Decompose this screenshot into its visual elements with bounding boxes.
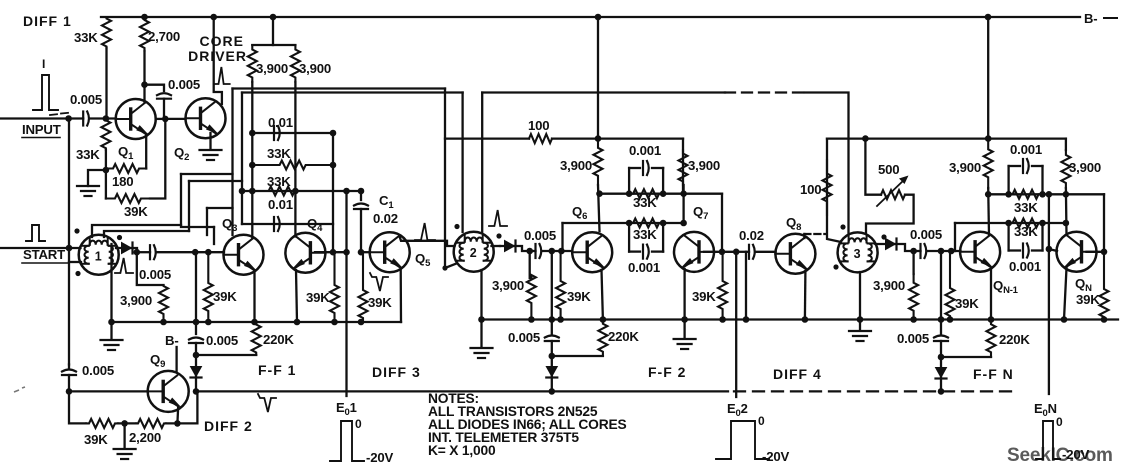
waveform E0N output (1036, 421, 1060, 459)
svg-text:I: I (42, 57, 45, 71)
wire row C (242, 190, 361, 192)
junction F-FN diode column top (938, 248, 945, 255)
wire Q4 collector column (294, 82, 296, 237)
junction input node / left column (65, 115, 72, 122)
junction rail/39K QN (1101, 316, 1108, 323)
wire INPUT lead (0, 117, 69, 119)
svg-text:0.005: 0.005 (524, 228, 556, 243)
junction Q6 base / row2 (558, 248, 565, 255)
junction row1 right crossing (680, 190, 687, 197)
wire left column (68, 119, 70, 365)
wire row2 corner to Q6 base (561, 223, 563, 251)
svg-text:1: 1 (95, 249, 102, 263)
capacitor 0.005 Q1-Q2 coupling (157, 93, 171, 95)
wire 220K F-FN return (941, 356, 991, 358)
wire Q5 base lead (361, 251, 370, 253)
junction top rail / Q2 collector (210, 14, 217, 21)
wire core3 to diode node (875, 244, 913, 251)
wire core1 right-lower to rail (110, 244, 112, 322)
junction rail/Q3 emitter (251, 319, 258, 326)
core T2 (454, 232, 494, 272)
wire staircase segment A (181, 174, 214, 227)
svg-text:B-: B- (165, 333, 179, 348)
svg-text:0.005: 0.005 (910, 227, 942, 242)
svg-text:39K: 39K (368, 295, 392, 310)
resistor 220K F-F1 (252, 322, 261, 355)
wire cap lead8 (1032, 249, 1043, 251)
junction rail/3,900 (160, 319, 167, 326)
capacitor C1 0.02 (354, 204, 368, 206)
wire stub Q1 side (157, 118, 166, 120)
wire core3 node to 3,900 (912, 251, 914, 274)
wire Q4 base node (315, 251, 347, 253)
wire F-FN diode column upper (940, 251, 942, 334)
junction Q7 base / E02 tap (733, 249, 740, 256)
svg-text:0.01: 0.01 (268, 197, 293, 212)
waveform start pulse (26, 225, 45, 241)
junction rail/39K Q3 (205, 319, 212, 326)
waveform core1 output pulse (115, 258, 133, 273)
ground Q7 (674, 338, 696, 340)
svg-text:100: 100 (528, 118, 549, 133)
wire 0.02 to Q8 base (755, 251, 776, 253)
wire F-F2 supply from rail (597, 17, 599, 139)
svg-text:2,700: 2,700 (148, 29, 180, 44)
resistor 39K Q6 base (556, 251, 565, 320)
resistor 3,900 F-F1 right (291, 45, 300, 82)
junction row1/cap right F-FN (1039, 191, 1046, 198)
wire Q4 emitter down (296, 270, 297, 322)
wire 39K up to Q2 base node (150, 119, 165, 199)
wire START lead (0, 247, 81, 249)
svg-text:0: 0 (355, 417, 362, 431)
wire INPUT underline (22, 137, 60, 139)
wire Q3 base node down to B- cap (195, 252, 197, 334)
wire supply corner to 3,900 right (682, 139, 684, 191)
wire cap lead7 (1009, 249, 1020, 251)
wire Q5 emitter down (400, 268, 403, 322)
wire row2 F-F2 (563, 222, 684, 224)
capacitor 0.005 start coupling (149, 245, 151, 259)
wire QN emitter down (1064, 268, 1067, 320)
svg-text:0.001: 0.001 (628, 260, 660, 275)
wire common rail left section (112, 321, 402, 323)
ground DIFF2 (114, 448, 136, 450)
junction F-FN column/220K (938, 354, 945, 361)
capacitor 0.001 F-FN top (1022, 159, 1024, 173)
junction rail/Q6 emitter (600, 316, 607, 323)
svg-text:DIFF 4: DIFF 4 (773, 366, 822, 382)
resistor 39K Q4 base (330, 252, 339, 322)
wire common rail F-F2 / F-FN (482, 318, 1119, 320)
junction B- cap / 220K return (193, 352, 200, 359)
junction row C crossing (249, 188, 256, 195)
svg-text:0.005: 0.005 (897, 331, 929, 346)
svg-text:39K: 39K (1076, 292, 1100, 307)
ground DIFF1 (77, 185, 99, 187)
wire core3 bottom to ground (859, 272, 861, 330)
wire 39K to 2,200 (118, 422, 136, 424)
wire row1 F-FN (988, 193, 1104, 195)
wire collector node to coupling cap (145, 85, 165, 91)
wire F-F2 diode column upper (551, 251, 553, 334)
wire row D (242, 223, 333, 225)
svg-text:DRIVER: DRIVER (188, 48, 247, 64)
wire Q3 collector column (251, 82, 253, 238)
wire core1 to diode (116, 248, 137, 252)
wire core1 top-right feedback (104, 231, 189, 237)
junction supply/3,900 left F-F2 (595, 135, 602, 142)
junction QN-1 collector node (985, 191, 992, 198)
wire to ground under Q1 (88, 170, 106, 186)
junction row1/cap left F-FN (1005, 191, 1012, 198)
junction row1 right F-FN (1063, 191, 1070, 198)
junction Q1 collector node (141, 81, 148, 88)
wire to QN-1 base (927, 250, 961, 252)
wire Q8 emitter down (804, 271, 807, 320)
dot core1 phase top-right (117, 235, 122, 240)
wire cap lead2 (652, 167, 663, 169)
resistor 39K Q3 base (204, 252, 213, 322)
wire long vertical P1 left leg (231, 89, 233, 236)
dot core3 phase top-left (840, 224, 845, 229)
wire F-F1 supply stub (272, 17, 274, 45)
wire Q7 emitter down (683, 269, 685, 320)
junction supply / 500 loop (862, 135, 869, 142)
wire F-F1 supply bracket (252, 44, 295, 46)
junction rail/39K Q5 (358, 319, 365, 326)
svg-text:39K: 39K (306, 290, 330, 305)
wire cap to diode to line (195, 343, 197, 391)
resistor 3,900 F-F2 right (679, 150, 688, 185)
junction supply / F-F N feed (985, 135, 992, 142)
wire core1 lower-left to left column (69, 261, 81, 263)
svg-text:START: START (23, 247, 65, 262)
resistor 33K F-FN row2 (1009, 219, 1043, 228)
junction row1 / E0N tap (1046, 191, 1053, 198)
wire 2,200 to long line (166, 391, 197, 423)
core T1 (79, 235, 119, 275)
junction row B left (249, 162, 256, 169)
wire cap branch right F-F2 top (662, 168, 664, 194)
wire core2 right out (492, 245, 501, 247)
junction rail / 3,900 core3 (910, 316, 917, 323)
wire 500 loop right to core3 (866, 195, 914, 233)
wire 33K top to Q1 base node... actually base bias (105, 48, 107, 119)
resistor 3,900 F-FN right (1061, 150, 1070, 188)
wire trigger to Q3 base (156, 251, 224, 253)
wire QN base lead (1087, 251, 1105, 253)
waveform E01 output (330, 421, 364, 461)
svg-text:0.005: 0.005 (206, 333, 238, 348)
core T3 (838, 232, 878, 272)
wire staircase segment E (189, 180, 242, 182)
svg-text:0.001: 0.001 (1010, 142, 1042, 157)
wire staircase segment C (207, 207, 233, 209)
wire Q7 base node (704, 251, 736, 253)
transistor QN (1057, 232, 1097, 272)
capacitor 0.005 F-FN input (919, 244, 921, 258)
resistor 3,900 F-FN left (984, 139, 993, 188)
svg-text:33K: 33K (76, 147, 100, 162)
svg-text:0.01: 0.01 (268, 115, 293, 130)
wire long trigger line solid (196, 390, 728, 392)
junction Q4 base / rows (330, 249, 337, 256)
wire 2,700 to Q1 collector (143, 51, 145, 103)
junction F-F2 column/220K (549, 353, 556, 360)
diode core3 output (886, 239, 896, 250)
capacitor 0.02 Q8 input (748, 245, 750, 259)
svg-text:0.02: 0.02 (739, 228, 764, 243)
wire Q3 emitter down (253, 271, 255, 322)
resistor 3,900 F-F2 left (594, 139, 603, 185)
svg-text:-20V: -20V (366, 450, 393, 465)
dot core1 phase bottom-left (75, 271, 80, 276)
svg-text:0.001: 0.001 (1009, 259, 1041, 274)
svg-text:2: 2 (470, 246, 477, 260)
wire to Q6 collector (598, 185, 600, 231)
transistor Q6 (572, 232, 612, 272)
svg-text:39K: 39K (213, 289, 237, 304)
junction row A left (249, 130, 256, 137)
svg-text:39K: 39K (955, 296, 979, 311)
wire left column to 39K (69, 391, 86, 423)
resistor 33K F-F2 row2 (629, 219, 663, 228)
resistor 39K Q1 feedback (106, 194, 150, 203)
wire 100 lead (445, 137, 529, 139)
svg-text:DIFF 1: DIFF 1 (23, 13, 72, 29)
resistor 39K Q5 base (359, 252, 368, 322)
junction row C / C1 column (358, 188, 365, 195)
svg-text:0.005: 0.005 (82, 363, 114, 378)
junction rail/Q7 emitter (681, 316, 688, 323)
arrow 500 pot (877, 179, 905, 206)
junction row2/cap left F-FN (1005, 220, 1012, 227)
svg-text:180: 180 (112, 174, 133, 189)
wire rows to Q4 base (332, 133, 334, 252)
wire cap branch right F-FN top (1041, 166, 1043, 194)
wire cap lead5 (1009, 165, 1020, 167)
wire to 0.02 cap (736, 251, 749, 253)
resistor 220K F-FN (987, 320, 996, 358)
wire Q1 emitter lead (145, 134, 147, 169)
transistor Q3 (224, 235, 264, 275)
junction trigger line / F-F2 diode (549, 388, 556, 395)
ground Q2 emitter (200, 149, 222, 151)
wire cap lead4 (652, 250, 663, 252)
dot core3 phase top-right (881, 234, 886, 239)
wire stub2 (950, 250, 951, 252)
wire stub to core2 left winding (445, 264, 457, 269)
transistor Q9 (148, 371, 189, 412)
junction row1/cap left (626, 190, 633, 197)
resistor 3,900 core1 damping (159, 285, 168, 322)
wire supply corner F-FN (1065, 139, 1067, 150)
wire cap to Q1 base (90, 117, 116, 119)
capacitor 0.01 cross-coupling D (273, 217, 275, 231)
svg-text:220K: 220K (999, 332, 1030, 347)
junction rail/Bminus column (193, 319, 200, 326)
wire feedback line P2 right part (482, 91, 725, 93)
capacitor 0.005 F-F2 column (545, 336, 559, 338)
wire 100 column to core3 (827, 139, 841, 242)
junction E0N line (1046, 246, 1053, 253)
wire long trigger line dashed (734, 390, 1014, 392)
dot core1 phase top-left (74, 228, 79, 233)
wire cap to Q9 base node (68, 375, 70, 391)
diode core2 output (505, 241, 515, 252)
junction START / left column (66, 245, 73, 252)
wire core1 node to cap (137, 251, 150, 253)
diode F-F2 column (546, 367, 557, 377)
wire row1 F-F2 (600, 193, 723, 195)
svg-text:33K: 33K (1014, 200, 1038, 215)
wire supply line F-F N (827, 137, 1066, 139)
junction rail / core3 ground (857, 316, 864, 323)
wire E01 tap (345, 191, 347, 396)
wire START underline (22, 262, 68, 264)
junction Q9 base node (66, 388, 73, 395)
wire left column to cap (68, 365, 70, 369)
resistor 220K F-F2 (598, 320, 607, 357)
ground core3 (849, 330, 871, 332)
wire to QN-1 collector (987, 188, 990, 235)
resistor 33K F-FN row1 (1009, 190, 1043, 199)
resistor 180 Q1 emitter (106, 164, 146, 173)
resistor 3,900 F-F1 left (248, 45, 257, 82)
junction rail/ground column (108, 319, 115, 326)
svg-text:3,900: 3,900 (1069, 160, 1101, 175)
svg-text:3,900: 3,900 (949, 160, 981, 175)
wire P2 down to core2 top-left (461, 93, 463, 233)
junction rail/39K Q4 (331, 319, 338, 326)
svg-text:0.02: 0.02 (373, 211, 398, 226)
waveform F-F1 reset pulse (258, 394, 276, 412)
resistor 2,200 Q9 emitter (136, 419, 166, 428)
junction rail/diode column F-FN (938, 316, 945, 323)
svg-text:2,200: 2,200 (129, 430, 161, 445)
junction rail/39K QN-1 (947, 316, 954, 323)
svg-text:39K: 39K (567, 289, 591, 304)
svg-text:39K: 39K (692, 289, 716, 304)
svg-text:-20V: -20V (762, 449, 789, 464)
svg-text:0.005: 0.005 (168, 77, 200, 92)
junction row1/cap right (660, 190, 667, 197)
wire to Q2 base (165, 118, 185, 120)
junction diode / long line (193, 388, 200, 395)
capacitor 0.005 B- column (189, 338, 203, 340)
transistor QN-1 (960, 232, 1000, 272)
resistor 33K row C (252, 187, 311, 196)
svg-text:B-: B- (1084, 11, 1097, 26)
diode DIFF2 column (191, 367, 202, 377)
transistor Q5 (370, 232, 410, 272)
junction top rail / 2,700 (141, 14, 148, 21)
wire cap lead6 (1032, 165, 1043, 167)
wire 3,900 to Q7 collector (682, 185, 684, 223)
junction Q6 collector node (596, 190, 603, 197)
svg-text:0: 0 (1056, 415, 1063, 429)
waveform Q5 output pulse (415, 223, 435, 240)
wire long vertical P2 left leg (241, 93, 243, 225)
resistor 2,700 Q1 collector load (140, 17, 149, 51)
wire core1 top-left feedback (92, 225, 181, 237)
svg-text:3,900: 3,900 (873, 278, 905, 293)
wire core2 to diode node (500, 246, 530, 251)
wire core2 bottom to ground (480, 270, 482, 347)
wire E0N stub (1049, 249, 1057, 251)
junction QN base node (1101, 249, 1108, 256)
waveform Q5 emitter pulse (370, 273, 388, 291)
wire B- to Q9 collector (175, 347, 177, 372)
junction Q1 base node (103, 115, 110, 122)
wire long feedback line P2 left part (242, 91, 463, 93)
wire P2 dashed part (725, 91, 805, 93)
capacitor 0.005 F-F2 input (534, 244, 536, 258)
wire E0N tap (1048, 194, 1050, 394)
wire cap branch left F-F2 top (628, 168, 630, 194)
transistor Q2 (186, 98, 226, 138)
dot core2 phase bottom-left (442, 265, 447, 270)
wire row1 to Q7 base (721, 194, 723, 252)
wire 220K return to B- column (196, 354, 256, 356)
wire to cap F-F2 (530, 250, 536, 252)
wire staircase segment C2 (206, 208, 208, 235)
junction core2 output node (526, 248, 533, 255)
wire P2 branch down to core2 top-right (481, 93, 483, 233)
wire staircase segment D (188, 181, 190, 231)
svg-text:DIFF 3: DIFF 3 (372, 364, 421, 380)
junction Q7 base node (719, 249, 726, 256)
junction Q4 base / E01 (343, 249, 350, 256)
svg-text:33K: 33K (74, 30, 98, 45)
svg-text:3,900: 3,900 (120, 293, 152, 308)
wire core1 right out (116, 247, 119, 249)
wire 220K F-F2 return (552, 355, 603, 357)
resistor 100 F-F2 (529, 134, 552, 143)
waveform core2 pulse (489, 210, 507, 226)
junction top rail / F-F 1 supply (270, 14, 277, 21)
svg-text:220K: 220K (608, 329, 639, 344)
capacitor 0.001 F-FN bottom (1022, 244, 1024, 258)
junction rail/39K Q7 (719, 316, 726, 323)
junction rail/Q8 emitter (802, 316, 809, 323)
wire 0.02 return to rail (745, 252, 747, 320)
wire Q8 collector stub (803, 234, 805, 238)
wire C1 to Q5 base (360, 209, 362, 252)
resistor 39K Q7 base (718, 252, 727, 320)
wire P1 down to core2 left winding (444, 89, 446, 269)
svg-text:33K: 33K (633, 195, 657, 210)
junction QN-1 base / 39K (948, 248, 955, 255)
junction row C left end (239, 188, 246, 195)
junction Q9 emitter/2,200 (174, 420, 181, 427)
wire cap to Q2 base node (163, 99, 165, 119)
junction rail/QN emitter (1061, 316, 1068, 323)
wire Q2 emitter to ground (209, 133, 211, 148)
svg-text:3,900: 3,900 (560, 158, 592, 173)
wire row2 corner to QN-1 base (954, 223, 956, 251)
wire Q2 collector to top rail (214, 17, 222, 104)
capacitor 0.005 left column (62, 370, 76, 372)
wire staircase segment A2 (213, 227, 215, 244)
svg-text:39K: 39K (124, 204, 148, 219)
junction Q2 base node (162, 116, 169, 123)
junction rail/diode column F-F2 (549, 316, 556, 323)
resistor 39K QN base (1100, 252, 1109, 320)
ground core1 (101, 339, 123, 341)
junction row C / E01 tap (343, 188, 350, 195)
